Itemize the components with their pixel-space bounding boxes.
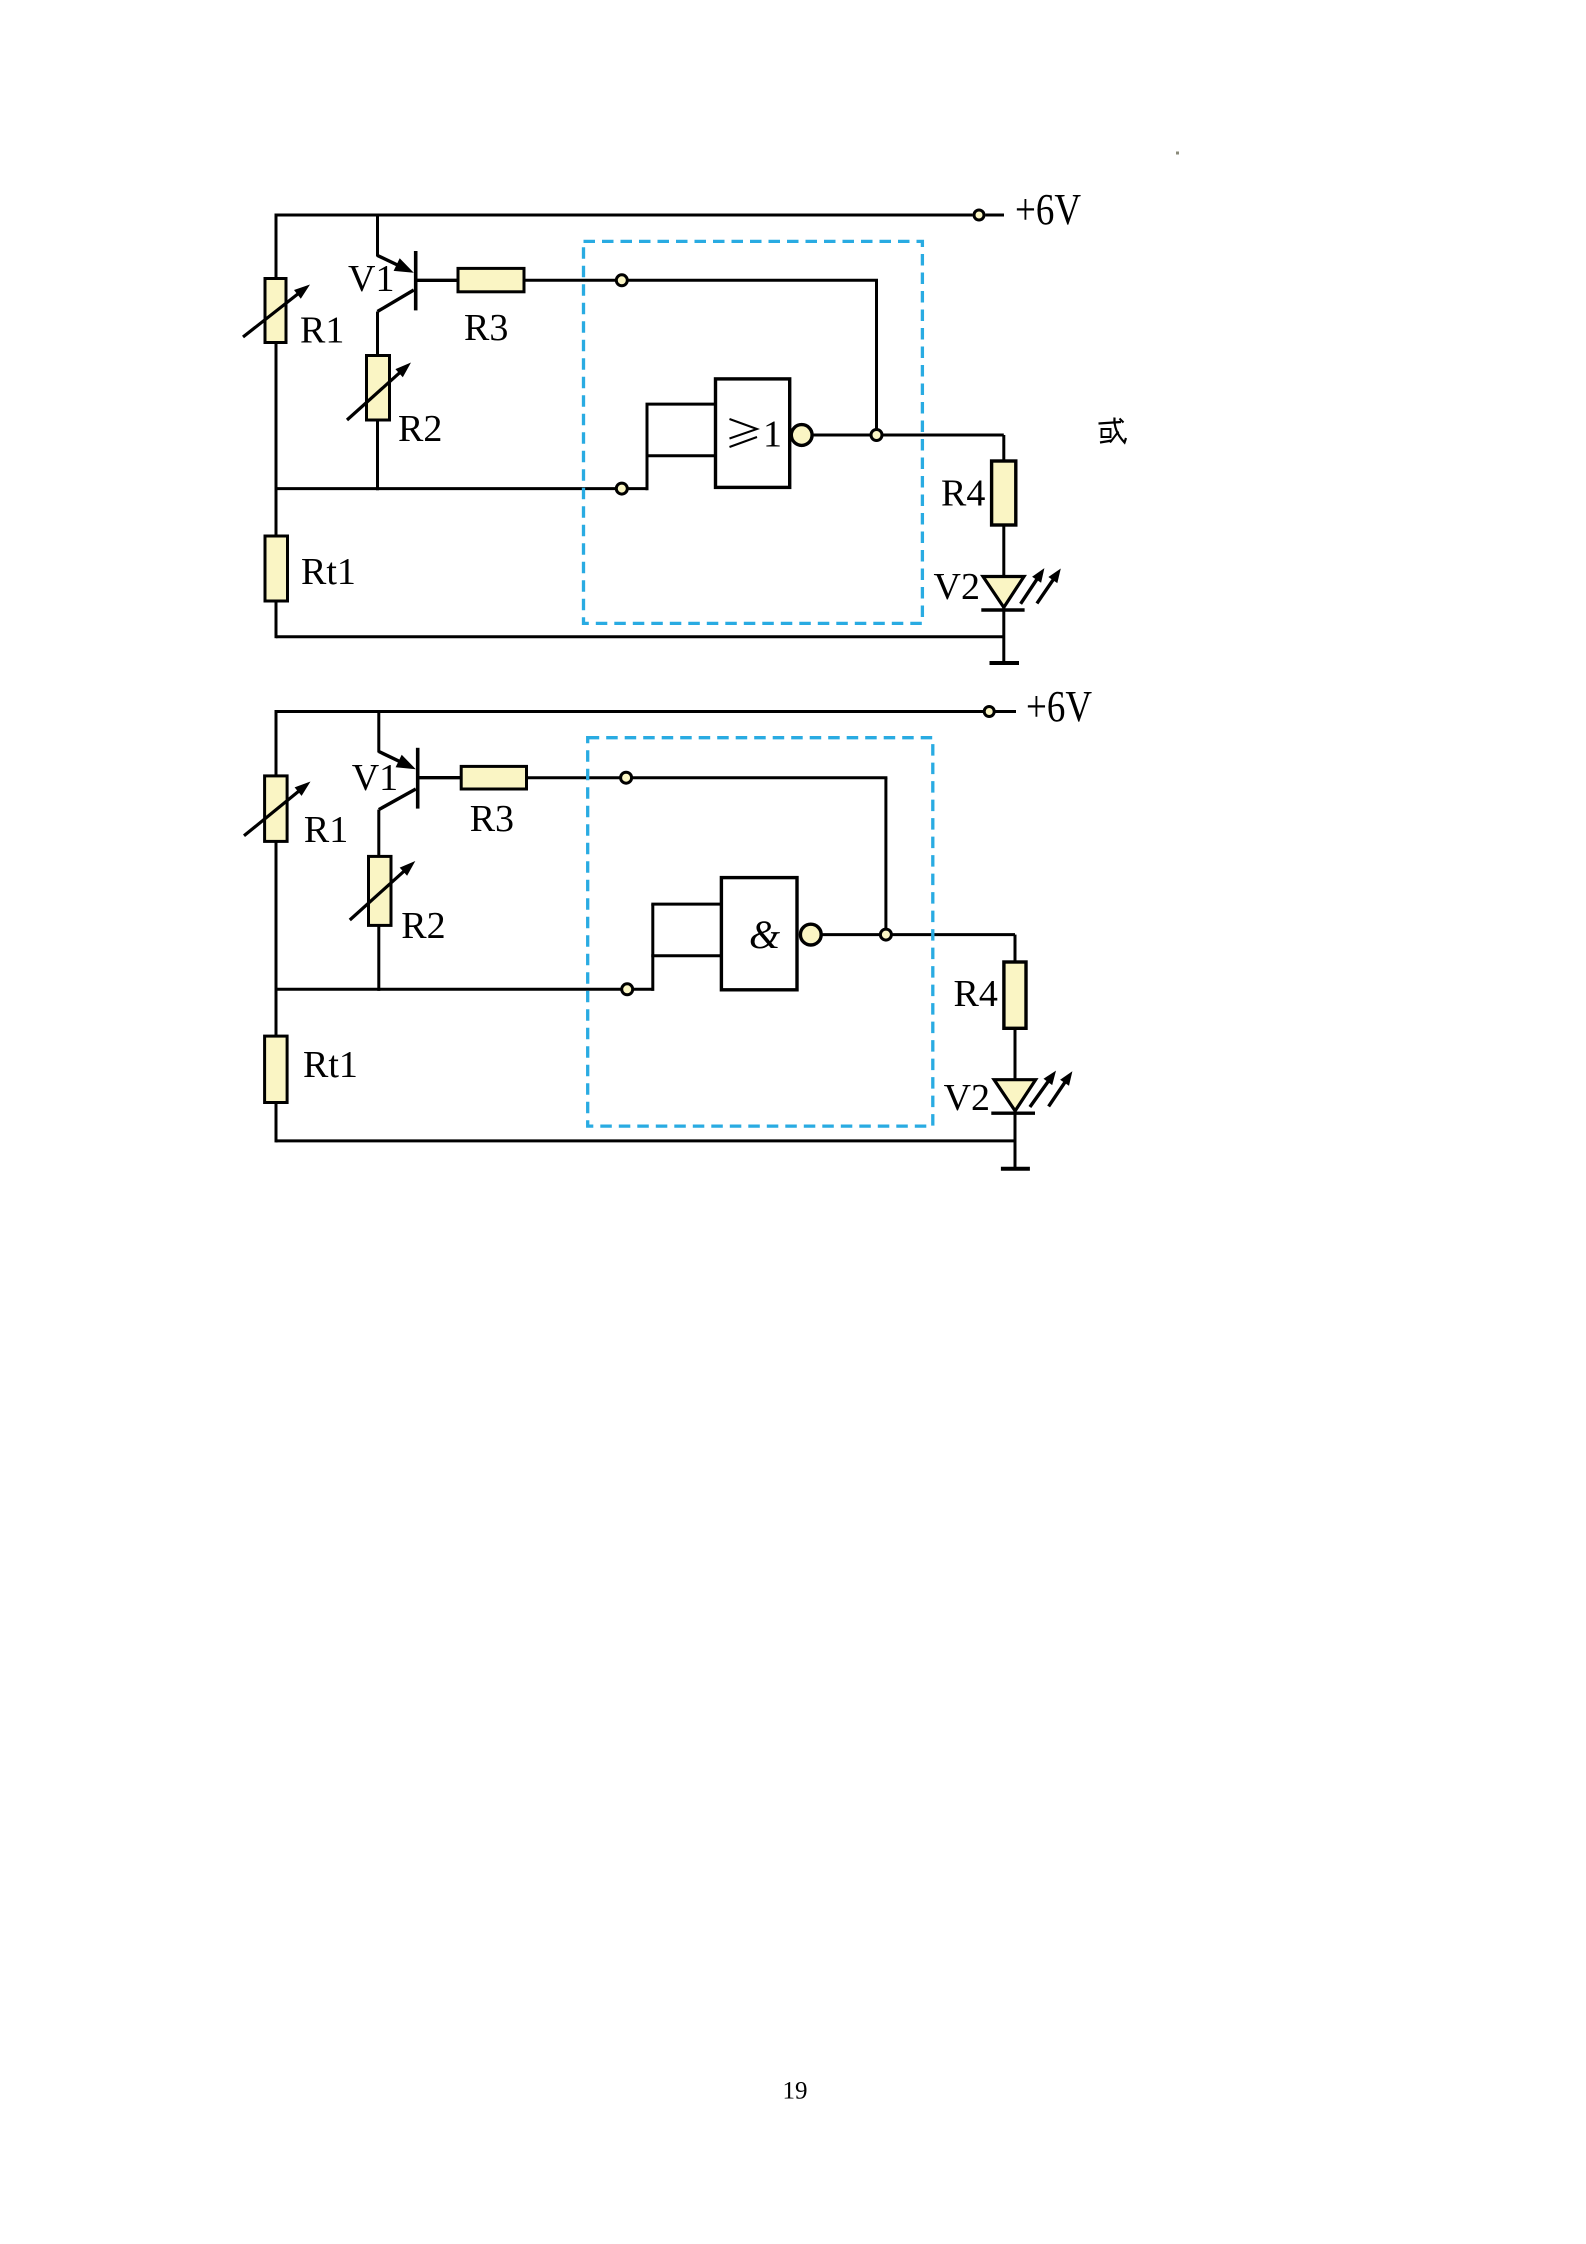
wire gate input riser (bottom) bbox=[651, 904, 654, 991]
wire R4 riser (bottom) bbox=[1014, 935, 1017, 962]
gate output bubble (top) bbox=[791, 425, 812, 446]
wire V1 emitter riser (bottom) bbox=[377, 712, 380, 753]
svg-text:+6V: +6V bbox=[1026, 682, 1092, 731]
wire left rail lower (bottom) bbox=[275, 1103, 278, 1143]
node +6V terminal (top circuit) bbox=[974, 210, 984, 220]
svg-text:V2: V2 bbox=[934, 566, 980, 608]
ground (top) bbox=[990, 661, 1020, 665]
wire return bus (bottom) bbox=[276, 1139, 1015, 1142]
svg-text:1: 1 bbox=[763, 414, 782, 456]
label R3 (top) bbox=[464, 307, 508, 349]
wire V1 collector to R2 (top) bbox=[376, 312, 379, 356]
label +6V (bottom circuit) bbox=[1026, 682, 1092, 731]
wire gate input stub lower (top) bbox=[646, 454, 716, 457]
label V1 (top) bbox=[348, 258, 394, 300]
label R1 (top) bbox=[300, 310, 344, 352]
resistor R3 (top) bbox=[458, 268, 524, 291]
wire gate output (bottom) bbox=[821, 933, 1015, 936]
wire R3 to corner (top) bbox=[524, 279, 878, 282]
node input terminal B (bottom) bbox=[622, 984, 633, 995]
label Rt1 (bottom) bbox=[303, 1044, 358, 1086]
wire gate input riser (top) bbox=[646, 404, 649, 490]
wire left rail mid (bottom) bbox=[275, 841, 278, 1036]
gate label & (bottom) bbox=[749, 912, 780, 957]
node input terminal A (top) bbox=[616, 275, 627, 286]
gate label >=1 (top) bbox=[730, 414, 783, 456]
resistor Rt1 (bottom) bbox=[265, 1036, 288, 1102]
svg-text:R3: R3 bbox=[470, 798, 514, 840]
resistor R4 (top) bbox=[992, 461, 1016, 525]
wire R4 riser (top) bbox=[1002, 435, 1005, 461]
svg-text:Rt1: Rt1 bbox=[303, 1044, 358, 1086]
wire corner down to output (top) bbox=[875, 280, 878, 435]
wire node bus (bottom) bbox=[276, 988, 653, 991]
wire LED to ground (bottom) bbox=[1014, 1111, 1017, 1169]
label V2 (bottom) bbox=[944, 1077, 990, 1119]
svg-text:R3: R3 bbox=[464, 307, 508, 349]
svg-text:Rt1: Rt1 bbox=[301, 551, 356, 593]
resistor R2 (top) bbox=[347, 356, 411, 421]
wire left rail lower (top) bbox=[275, 601, 278, 638]
transistor V1 (top) bbox=[378, 251, 459, 312]
wire +6V stub (top circuit) bbox=[986, 214, 1005, 217]
wire left rail mid (top) bbox=[275, 343, 278, 537]
node input terminal B (top) bbox=[616, 483, 627, 494]
wire +6V rail (bottom circuit) bbox=[276, 710, 983, 713]
resistor R4 (bottom) bbox=[1004, 962, 1026, 1028]
wire corner down to output (bottom) bbox=[884, 778, 887, 935]
wire R4 to LED (top) bbox=[1002, 525, 1005, 578]
svg-text:V2: V2 bbox=[944, 1077, 990, 1119]
resistor R3 (bottom) bbox=[461, 766, 526, 789]
svg-text:+6V: +6V bbox=[1015, 185, 1081, 234]
label V1 (bottom) bbox=[352, 757, 398, 799]
wire gate input stub upper (top) bbox=[646, 403, 716, 406]
wire V1 collector to R2 (bottom) bbox=[377, 810, 380, 857]
svg-text:V1: V1 bbox=[352, 757, 398, 799]
svg-text:R4: R4 bbox=[954, 973, 998, 1015]
svg-text:19: 19 bbox=[783, 2078, 808, 2105]
gate box AND (bottom) bbox=[721, 878, 797, 990]
label V2 (top) bbox=[934, 566, 980, 608]
wire node bus (top) bbox=[276, 487, 647, 490]
node output junction (top) bbox=[871, 430, 882, 441]
dashed box (bottom) bbox=[588, 738, 933, 1126]
svg-text:R1: R1 bbox=[304, 809, 348, 851]
wire R2 to node (bottom) bbox=[377, 925, 380, 991]
wire +6V stub (bottom circuit) bbox=[996, 710, 1017, 713]
node output junction (bottom) bbox=[880, 929, 891, 940]
label +6V (top circuit) bbox=[1015, 185, 1081, 234]
svg-text:R4: R4 bbox=[941, 473, 985, 515]
wire left rail upper (top) bbox=[275, 214, 278, 279]
wire gate input stub upper (bottom) bbox=[651, 903, 721, 906]
label Rt1 (top) bbox=[301, 551, 356, 593]
label huo (Chinese 'OR') bbox=[1099, 418, 1127, 443]
wire return bus (top) bbox=[276, 635, 1004, 638]
node +6V terminal (bottom circuit) bbox=[984, 707, 994, 717]
node input terminal A (bottom) bbox=[621, 772, 632, 783]
gate output bubble (bottom) bbox=[800, 924, 821, 945]
wire gate input stub lower (bottom) bbox=[651, 954, 721, 957]
resistor R1 (top) bbox=[243, 279, 310, 343]
svg-text:R2: R2 bbox=[398, 408, 442, 450]
label R2 (top) bbox=[398, 408, 442, 450]
svg-text:R1: R1 bbox=[300, 310, 344, 352]
label R4 (bottom) bbox=[954, 973, 998, 1015]
LED V2 (bottom) bbox=[991, 1071, 1072, 1114]
LED V2 (top) bbox=[981, 568, 1061, 610]
label R2 (bottom) bbox=[401, 905, 445, 947]
page number bbox=[783, 2078, 808, 2105]
ground (bottom) bbox=[1001, 1167, 1030, 1171]
dashed box (top) bbox=[584, 241, 923, 623]
wire V1 emitter riser (top) bbox=[376, 215, 379, 257]
resistor Rt1 (top) bbox=[265, 536, 288, 601]
wire LED to ground (top) bbox=[1002, 607, 1005, 663]
svg-text:&: & bbox=[749, 912, 780, 957]
resistor R1 (bottom) bbox=[244, 776, 311, 842]
label R3 (bottom) bbox=[470, 798, 514, 840]
wire +6V rail (top circuit) bbox=[276, 214, 973, 217]
wire gate output (top) bbox=[812, 434, 1004, 437]
wire R3 to corner (bottom) bbox=[527, 776, 888, 779]
transistor V1 (bottom) bbox=[379, 748, 461, 810]
wire R2 to node (top) bbox=[376, 420, 379, 490]
svg-text:R2: R2 bbox=[401, 905, 445, 947]
resistor R2 (bottom) bbox=[350, 856, 416, 925]
label R4 (top) bbox=[941, 473, 985, 515]
wire left rail upper (bottom) bbox=[275, 710, 278, 776]
wire R4 to LED (bottom) bbox=[1014, 1028, 1017, 1081]
gate box OR (top) bbox=[716, 379, 790, 488]
label R1 (bottom) bbox=[304, 809, 348, 851]
svg-text:V1: V1 bbox=[348, 258, 394, 300]
stray dot bbox=[1176, 152, 1179, 155]
